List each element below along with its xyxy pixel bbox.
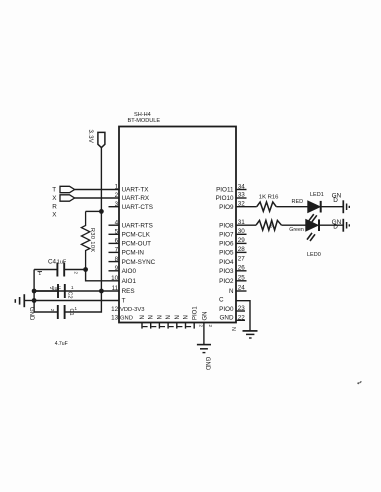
svg-text:UART-RTS: UART-RTS xyxy=(122,222,153,229)
svg-text:9: 9 xyxy=(115,265,119,272)
pin 22 stub xyxy=(237,319,246,321)
pin 7 stub xyxy=(109,251,120,253)
svg-text:PIO0: PIO0 xyxy=(219,306,234,313)
svg-text:N: N xyxy=(157,315,163,319)
svg-text:PIO6: PIO6 xyxy=(219,241,234,248)
junction dot bus C2 xyxy=(32,289,37,294)
svg-text:28: 28 xyxy=(238,246,246,253)
svg-text:30: 30 xyxy=(238,228,246,235)
svg-text:10: 10 xyxy=(111,275,119,282)
wire R30 top to rail xyxy=(86,210,102,212)
resistor R30 10K xyxy=(81,211,89,269)
svg-text:N: N xyxy=(230,327,236,331)
svg-text:T: T xyxy=(52,187,56,194)
stray mark bottom right xyxy=(357,381,361,384)
pin 28 stub xyxy=(236,251,247,253)
wire pin2 UART-RX xyxy=(75,197,119,199)
svg-text:R30 10K: R30 10K xyxy=(89,228,95,253)
capacitor C2 xyxy=(34,290,57,292)
power 3.3V symbol xyxy=(98,132,105,147)
wire LED1 to gnd xyxy=(321,206,343,208)
ground left xyxy=(25,300,34,302)
svg-text:AIO0: AIO0 xyxy=(122,268,137,275)
svg-text:4: 4 xyxy=(115,219,119,226)
svg-text:1: 1 xyxy=(115,184,119,191)
svg-text:PIO5: PIO5 xyxy=(219,250,234,257)
left pin numbers xyxy=(111,184,119,322)
svg-text:RES: RES xyxy=(122,288,135,295)
LED LED1 xyxy=(308,201,320,212)
svg-text:PIO1: PIO1 xyxy=(193,306,199,320)
LED LED0 xyxy=(306,220,318,231)
ground right top xyxy=(342,200,344,213)
pin 25 stub xyxy=(236,280,247,282)
wire GND pin down xyxy=(203,323,205,345)
capacitor C1 xyxy=(34,311,57,313)
svg-text:PIO4: PIO4 xyxy=(219,259,234,266)
pin 34 stub xyxy=(236,189,247,191)
svg-text:PIO11: PIO11 xyxy=(216,187,234,194)
svg-text:3.3V: 3.3V xyxy=(87,130,93,144)
bottom pin ticks xyxy=(143,326,192,328)
svg-text:UART-TX: UART-TX xyxy=(122,187,150,194)
junction dot bus gnd xyxy=(32,298,37,303)
svg-text:24: 24 xyxy=(238,285,246,292)
svg-text:PIO10: PIO10 xyxy=(216,195,234,202)
pin 5 stub xyxy=(109,233,120,235)
svg-text:PIO3: PIO3 xyxy=(219,268,234,275)
svg-text:GND: GND xyxy=(120,316,133,322)
svg-text:27: 27 xyxy=(238,255,246,262)
wire left bus vertical xyxy=(33,270,35,313)
svg-text:3: 3 xyxy=(115,201,119,208)
svg-text:C1: C1 xyxy=(68,309,74,316)
wire RED to LED1 xyxy=(276,206,308,208)
svg-text:PCM-SYNC: PCM-SYNC xyxy=(122,259,156,266)
pin 8 stub xyxy=(109,261,120,263)
svg-text:AIO1: AIO1 xyxy=(122,278,137,285)
junction dot rail/R30 xyxy=(99,209,104,214)
pin 23 stub xyxy=(237,310,246,312)
right pin names xyxy=(216,187,234,322)
svg-text:Green: Green xyxy=(289,227,304,233)
junction dot rail pin11 xyxy=(99,289,104,294)
ground right bottom xyxy=(342,219,344,232)
pin 3 stub xyxy=(109,206,120,208)
svg-text:N: N xyxy=(184,315,190,319)
resistor R8 xyxy=(256,220,282,230)
wire LED0 to gnd xyxy=(319,224,343,226)
wire pin10 from R30 node xyxy=(86,270,119,281)
junction dot R30 bottom xyxy=(83,267,88,272)
svg-text:RED: RED xyxy=(292,199,304,205)
svg-text:33: 33 xyxy=(238,192,246,199)
svg-text:N: N xyxy=(149,315,155,319)
svg-text:R: R xyxy=(52,203,57,210)
svg-text:1K R16: 1K R16 xyxy=(259,195,279,201)
svg-text:23: 23 xyxy=(238,305,246,312)
svg-text:12: 12 xyxy=(111,306,119,313)
svg-text:UART-CTS: UART-CTS xyxy=(122,204,153,211)
svg-text:N: N xyxy=(175,315,181,319)
svg-text:PIO7: PIO7 xyxy=(219,232,234,239)
svg-text:2: 2 xyxy=(208,325,213,328)
svg-text:7: 7 xyxy=(115,247,119,254)
LED0 arrows xyxy=(307,233,312,240)
pin 24 stub xyxy=(236,290,247,292)
svg-text:C4: C4 xyxy=(48,258,57,265)
svg-text:LED0: LED0 xyxy=(307,252,321,258)
svg-text:UART-RX: UART-RX xyxy=(122,195,150,202)
pin 26 stub xyxy=(236,270,247,272)
svg-text:6: 6 xyxy=(115,238,119,245)
wire T row xyxy=(34,300,119,302)
svg-text:8: 8 xyxy=(115,256,119,263)
svg-text:PCM-CLK: PCM-CLK xyxy=(122,232,151,239)
svg-text:N: N xyxy=(229,288,234,295)
svg-text:C: C xyxy=(219,296,224,303)
wire C pin to ground xyxy=(236,301,250,331)
svg-text:GND: GND xyxy=(28,307,34,321)
connector RX xyxy=(60,195,75,201)
svg-text:2: 2 xyxy=(115,192,119,199)
svg-text:1uF: 1uF xyxy=(57,259,67,265)
svg-text:25: 25 xyxy=(238,275,246,282)
svg-text:GND: GND xyxy=(204,357,210,371)
ground bottom right xyxy=(243,330,258,332)
svg-text:26: 26 xyxy=(238,265,246,272)
LED1 arrows xyxy=(309,214,314,221)
bottom pin stubs 14-21 xyxy=(141,323,143,329)
svg-text:5: 5 xyxy=(115,229,119,236)
svg-text:D: D xyxy=(333,224,338,231)
svg-text:2: 2 xyxy=(199,325,204,328)
pin 33 stub xyxy=(236,197,247,199)
svg-text:PIO9: PIO9 xyxy=(219,204,234,211)
pin 6 stub xyxy=(109,242,120,244)
resistor R16 1K xyxy=(257,202,277,211)
connector TX xyxy=(60,186,75,192)
svg-text:29: 29 xyxy=(238,237,246,244)
wire pin1 UART-TX xyxy=(75,189,119,191)
svg-text:LED1: LED1 xyxy=(310,192,324,198)
svg-text:PIO2: PIO2 xyxy=(219,278,234,285)
svg-text:PCM-OUT: PCM-OUT xyxy=(122,241,152,248)
svg-text:N: N xyxy=(166,315,172,319)
ground bottom middle xyxy=(197,344,211,346)
capacitor C4 xyxy=(34,269,57,271)
svg-text:PCM-IN: PCM-IN xyxy=(122,250,145,257)
pin 29 stub xyxy=(236,242,247,244)
wire pin32 to R16 xyxy=(236,206,257,208)
svg-text:N: N xyxy=(140,315,146,319)
svg-text:22: 22 xyxy=(238,315,246,322)
pin 4 stub xyxy=(109,224,120,226)
svg-text:13: 13 xyxy=(111,315,119,322)
svg-text:34: 34 xyxy=(238,184,246,191)
svg-text:11: 11 xyxy=(112,285,119,292)
svg-text:D: D xyxy=(333,197,338,204)
svg-text:4.7uF: 4.7uF xyxy=(55,341,68,347)
svg-text:BT-MODULE: BT-MODULE xyxy=(128,118,161,124)
wire Green to LED0 xyxy=(282,224,307,226)
op-amp U1 module body SH-H4 BT-MODULE xyxy=(119,127,236,323)
wire pin11 RES row xyxy=(34,290,119,292)
svg-text:PIO8: PIO8 xyxy=(219,222,234,229)
pin 30 stub xyxy=(236,233,247,235)
wire pin31 to R xyxy=(236,224,256,226)
svg-text:31: 31 xyxy=(238,219,246,226)
svg-text:VDD-3V3: VDD-3V3 xyxy=(120,307,144,313)
svg-text:T: T xyxy=(122,298,126,305)
svg-text:32: 32 xyxy=(238,200,246,207)
svg-text:C2: C2 xyxy=(67,292,73,299)
svg-text:GND: GND xyxy=(220,315,234,322)
pin 9 stub xyxy=(109,270,120,272)
svg-text:GN: GN xyxy=(202,312,208,321)
wire C1 right riser xyxy=(65,291,101,312)
wire 3.3V rail vertical xyxy=(100,148,102,291)
